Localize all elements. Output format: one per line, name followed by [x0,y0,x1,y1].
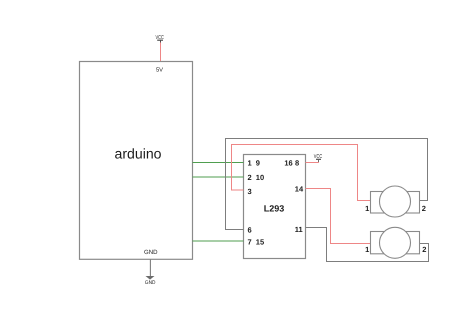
svg-text:16: 16 [284,159,292,168]
svg-text:9: 9 [256,159,260,168]
VCC power symbol (top) [156,35,164,43]
svg-text:6: 6 [248,226,252,235]
motor M2 [371,227,420,258]
svg-text:2: 2 [422,204,426,213]
wire arduino to L293 pin2 (green) [193,176,244,178]
svg-text:8: 8 [295,159,299,168]
ground symbol [145,260,156,287]
svg-text:arduino: arduino [114,146,161,162]
svg-text:3: 3 [248,187,252,196]
svg-text:7: 7 [248,237,252,246]
IC L293 [244,155,306,259]
svg-text:GND: GND [144,249,158,256]
wire L293 pin3 to motor M1 terminal 1 (red) [232,145,371,201]
svg-text:1: 1 [365,204,369,213]
svg-text:1: 1 [365,245,369,254]
svg-text:2: 2 [248,173,252,182]
svg-text:1: 1 [248,159,252,168]
svg-text:15: 15 [256,237,264,246]
wire VCC to arduino 5V (red) [160,43,162,62]
wire arduino to L293 pin7 (green) [193,240,244,242]
wire L293 pin14 to motor M2 terminal 1 (red) [306,189,371,244]
wire L293 pin11 to motor M2 terminal 2 (gray) [306,228,429,262]
svg-text:L293: L293 [264,203,285,213]
svg-text:10: 10 [256,173,264,182]
svg-text:11: 11 [295,225,303,234]
svg-text:14: 14 [295,184,304,193]
wire L293 pin16/8 to VCC (red) [306,162,319,164]
svg-text:2: 2 [422,245,426,254]
svg-text:5V: 5V [156,68,163,74]
svg-text:GND: GND [145,280,156,286]
VCC power symbol (at L293 pin 8) [314,154,322,162]
arduino board U1 [80,62,193,260]
motor M1 [371,186,420,217]
wire L293 pin6 to motor M1 terminal 2 (gray) [226,139,428,230]
wire arduino to L293 pin1 (green) [193,162,244,164]
